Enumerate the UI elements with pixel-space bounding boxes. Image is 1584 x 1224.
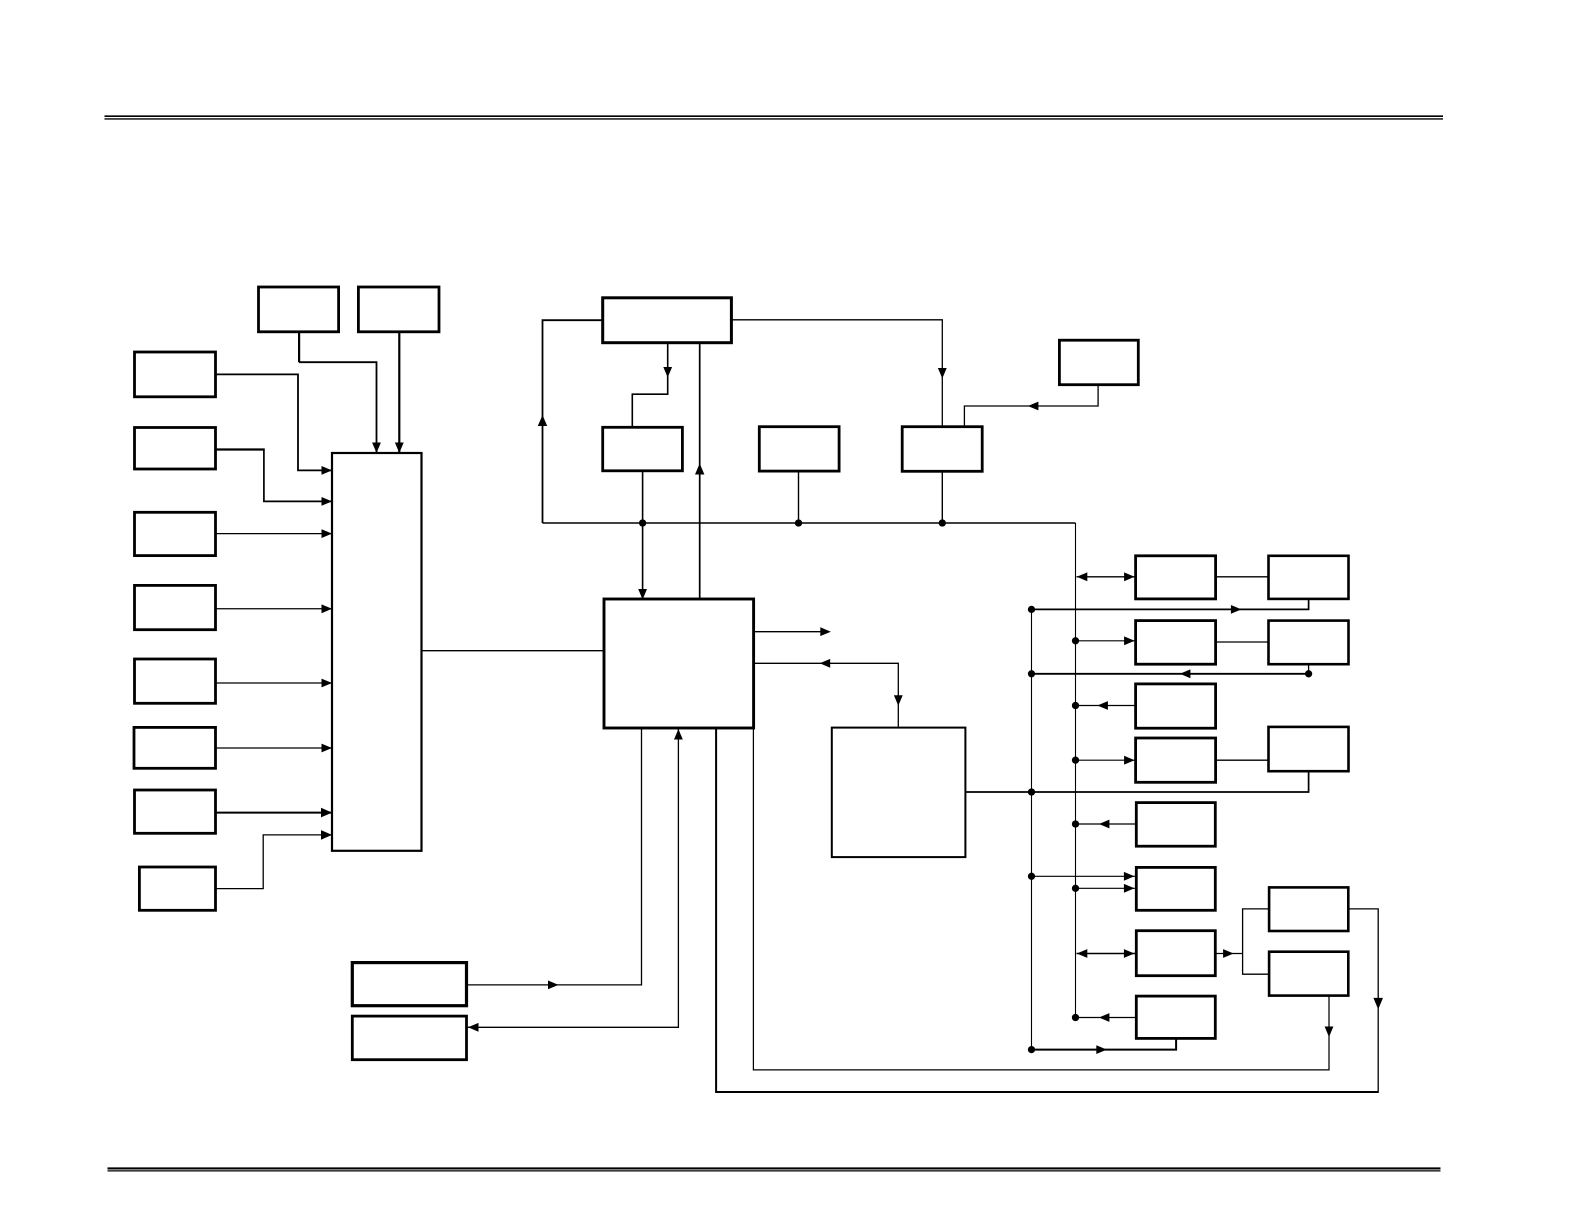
- block T1: [259, 287, 339, 332]
- junction bus x942: [939, 519, 946, 526]
- arrowhead into tall top x376: [372, 443, 381, 454]
- arrowhead A1 right tip: [1124, 572, 1135, 581]
- block L6: [134, 727, 216, 768]
- arrowhead into A4: [1124, 756, 1135, 765]
- wire L6 to tall block: [216, 747, 332, 749]
- junction main trunk y760: [1072, 757, 1079, 764]
- junction left trunk y876: [1028, 873, 1035, 880]
- wire A8 to trunk: [1076, 1017, 1137, 1019]
- wire left trunk bottom to A8 bottom: [1032, 1038, 1177, 1049]
- arrowhead A8 bottom feed right: [1096, 1045, 1107, 1054]
- wire bottom feedback horizontal: [715, 1091, 1378, 1093]
- wire T1 elbow to tall block top: [299, 362, 376, 452]
- arrowhead into tall left y812: [321, 808, 332, 818]
- wire A7 double arrow: [1077, 953, 1136, 955]
- block A5: [1136, 803, 1215, 847]
- arrowhead A7 to bracket right: [1223, 949, 1234, 958]
- junction main trunk y705: [1072, 702, 1079, 709]
- wire A2 to B2: [1216, 641, 1269, 643]
- block A2: [1136, 621, 1216, 665]
- arrowhead down to S3: [938, 368, 947, 379]
- wire TR block to S3: [964, 385, 1098, 427]
- wire A7 to bracket: [1215, 953, 1242, 955]
- wire L8 to tall block: [216, 835, 331, 889]
- block BL1: [352, 963, 466, 1006]
- junction main trunk y641: [1072, 637, 1079, 644]
- wire center block bottom to BL2: [468, 728, 679, 1027]
- wire A4 to B3: [1216, 759, 1269, 761]
- wire long block zigzag to S1: [632, 343, 667, 427]
- block B2: [1269, 621, 1349, 665]
- block L5: [135, 659, 216, 703]
- junction left trunk bottom: [1028, 1046, 1035, 1053]
- arrowhead into A2: [1124, 636, 1135, 645]
- wire S3 bottom to bus: [941, 471, 943, 523]
- block square: [832, 728, 966, 858]
- wire center block feedback down: [715, 728, 717, 1092]
- arrowhead feedback down right vert: [1373, 998, 1383, 1010]
- block C2: [1269, 952, 1348, 996]
- wire L3 to tall block: [216, 533, 332, 535]
- junction bus x643: [639, 519, 646, 526]
- wire trunk to A6 second: [1076, 887, 1136, 889]
- wire trunk to A4: [1076, 759, 1136, 761]
- wire T2 to tall block top: [398, 332, 400, 452]
- block L2: [135, 428, 216, 470]
- block L1: [135, 352, 216, 397]
- wire L1 to tall block: [216, 374, 332, 470]
- block tall: [332, 453, 422, 851]
- wire center block up to long block: [699, 343, 701, 599]
- wire A1 to B1: [1216, 576, 1269, 578]
- arrowhead into tall top x399: [395, 443, 404, 454]
- block L7: [135, 790, 216, 833]
- arrowhead BL1 route right: [548, 981, 559, 990]
- wire B2 bottom to horizontal: [1308, 664, 1310, 674]
- block S1: [603, 427, 683, 471]
- wire feedback right vertical to C1: [1348, 909, 1378, 1093]
- wire T1 drop: [298, 332, 300, 362]
- arrowhead up to long block: [695, 464, 704, 475]
- block L3: [135, 512, 216, 555]
- wire long block left feedback to bus: [543, 320, 603, 523]
- wire center block input from square block feed: [754, 663, 899, 726]
- arrowhead down to square: [894, 695, 903, 706]
- wire A3 to trunk: [1076, 705, 1136, 707]
- block L8: [139, 867, 215, 910]
- arrowhead center output right: [820, 627, 831, 636]
- arrowhead into tall left y683: [322, 679, 333, 688]
- block BL2: [352, 1016, 466, 1060]
- arrowhead zigzag down: [663, 367, 672, 378]
- wire C1 C2 bracket: [1243, 909, 1270, 974]
- block A6: [1136, 867, 1215, 910]
- wire BL1 to center block bottom: [467, 728, 642, 985]
- arrowhead into A6 second: [1124, 884, 1135, 893]
- wire main trunk: [1075, 523, 1077, 1018]
- junction left trunk y673: [1028, 670, 1035, 677]
- junction left trunk top: [1028, 606, 1035, 613]
- wire second feedback to C2: [753, 728, 1329, 1070]
- junction left trunk y791: [1028, 788, 1035, 795]
- wire left trunk: [1031, 609, 1033, 1049]
- arrowhead TR route left: [1028, 402, 1039, 411]
- top double rule: [105, 115, 1444, 117]
- arrowhead A7 right tip: [1124, 949, 1135, 958]
- arrowhead B2 return left: [1180, 669, 1191, 678]
- wire L7 to tall block: [216, 812, 332, 814]
- arrowhead down to C2 line: [1325, 1027, 1334, 1038]
- wire L2 to tall block upper: [216, 448, 265, 450]
- wire A5 to trunk: [1076, 823, 1137, 825]
- block T2: [358, 287, 439, 332]
- arrowhead up into center bottom: [674, 729, 683, 740]
- arrowhead A3 out left: [1097, 701, 1108, 710]
- arrowhead long feedback up: [538, 415, 547, 426]
- junction B2 corner: [1305, 670, 1312, 677]
- arrowhead into tall left y835: [321, 830, 332, 840]
- wire A1 double arrow: [1077, 576, 1136, 578]
- wire bus: [543, 522, 1076, 524]
- arrowhead A7 left tip: [1077, 949, 1088, 958]
- block center: [604, 599, 754, 728]
- arrowhead A5 out left: [1099, 820, 1110, 829]
- block A7: [1136, 931, 1215, 976]
- wire long block right to S3: [731, 320, 942, 427]
- block long: [603, 298, 732, 343]
- block A8: [1136, 996, 1215, 1038]
- junction main trunk y1017: [1072, 1014, 1079, 1021]
- arrowhead into A6 first: [1124, 872, 1135, 881]
- arrowhead center input left: [820, 659, 831, 668]
- wire S1 bottom through bus to center block: [642, 471, 644, 598]
- wire left trunk to A6: [1032, 875, 1136, 877]
- block C1: [1269, 887, 1348, 931]
- wire L2 to tall block lower: [264, 449, 331, 502]
- junction main trunk y824: [1072, 820, 1079, 827]
- block B3: [1269, 727, 1349, 771]
- arrowhead A8 out left: [1099, 1013, 1110, 1022]
- block A1: [1136, 556, 1216, 599]
- block A4: [1136, 738, 1216, 782]
- arrowhead A1 left tip: [1077, 572, 1088, 581]
- wire S2 bottom to bus: [798, 471, 800, 523]
- arrowhead into tall left y609: [322, 604, 333, 613]
- wire tall block to center block: [422, 650, 605, 652]
- block L4: [135, 585, 216, 629]
- wire B2 horizontal to left trunk: [1032, 673, 1309, 675]
- block A3: [1136, 684, 1216, 728]
- wire center block output arrow: [754, 631, 830, 633]
- arrowhead to B1 bottom right: [1231, 605, 1242, 614]
- wire L5 to tall block: [216, 682, 332, 684]
- arrowhead into tall left y748: [322, 744, 333, 753]
- junction main trunk y888: [1072, 885, 1079, 892]
- arrowhead into tall left y502: [322, 497, 333, 506]
- bottom double rule: [108, 1167, 1441, 1169]
- arrowhead into tall left y471: [322, 466, 333, 475]
- wire L4 to tall block: [216, 608, 332, 610]
- wire trunk to A2: [1076, 640, 1136, 642]
- block TR: [1059, 340, 1138, 385]
- arrowhead into center top: [638, 589, 647, 600]
- arrowhead into BL2 left: [468, 1023, 479, 1032]
- wire left trunk to B1 bottom: [1032, 599, 1309, 610]
- junction bus x798: [795, 519, 802, 526]
- arrowhead into tall left y533: [322, 529, 333, 538]
- wire square block output to B3: [965, 771, 1308, 792]
- block S2: [759, 427, 839, 471]
- block B1: [1269, 556, 1349, 599]
- block S3: [902, 427, 982, 472]
